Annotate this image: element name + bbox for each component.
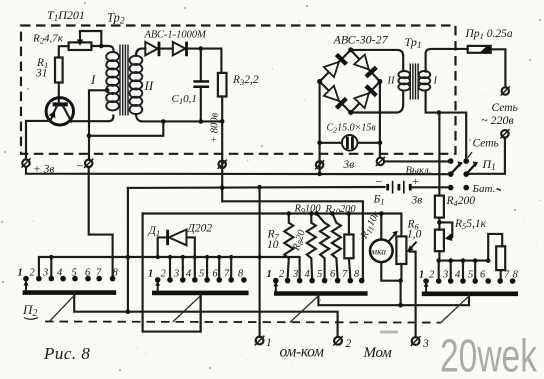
svg-text:–: – xyxy=(76,160,83,172)
svg-text:+ 3в: + 3в xyxy=(33,164,54,176)
svg-text:R4200: R4200 xyxy=(446,195,476,208)
svg-text:R9100: R9100 xyxy=(294,204,322,216)
svg-text:Т1П201: Т1П201 xyxy=(47,8,85,23)
svg-text:1: 1 xyxy=(266,337,272,349)
svg-text:3: 3 xyxy=(292,269,298,280)
svg-text:10: 10 xyxy=(267,239,279,251)
svg-text:6: 6 xyxy=(330,269,336,280)
svg-text:6: 6 xyxy=(85,268,91,279)
svg-text:7: 7 xyxy=(504,270,510,281)
svg-text:Сеть: Сеть xyxy=(473,138,499,150)
svg-text:АВС-1-1000М: АВС-1-1000М xyxy=(144,30,208,41)
svg-text:R24,7к: R24,7к xyxy=(32,33,64,46)
svg-text:5: 5 xyxy=(468,270,473,281)
svg-text:1: 1 xyxy=(267,269,272,280)
svg-text:4: 4 xyxy=(305,269,311,280)
svg-text:I: I xyxy=(433,76,438,87)
svg-text:3: 3 xyxy=(422,338,429,350)
svg-text:20wek: 20wek xyxy=(440,330,538,379)
svg-text:31: 31 xyxy=(35,68,48,80)
svg-text:1,0: 1,0 xyxy=(407,229,422,241)
svg-text:II: II xyxy=(387,76,395,87)
svg-text:Выкл.: Выкл. xyxy=(406,166,432,177)
svg-text:2: 2 xyxy=(161,269,167,280)
svg-text:3: 3 xyxy=(173,269,179,280)
svg-text:6: 6 xyxy=(480,270,486,281)
svg-text:–: – xyxy=(375,175,382,187)
svg-text:3в: 3в xyxy=(411,195,423,207)
svg-text:5: 5 xyxy=(317,269,322,280)
svg-text:3: 3 xyxy=(442,270,448,281)
svg-text:4: 4 xyxy=(455,270,461,281)
svg-text:АВС-30-27: АВС-30-27 xyxy=(333,33,389,47)
svg-text:~ 220в: ~ 220в xyxy=(481,113,514,127)
svg-text:+ 800в: + 800в xyxy=(210,113,221,143)
svg-text:8: 8 xyxy=(513,270,519,281)
svg-text:7: 7 xyxy=(342,269,348,280)
svg-text:R10200: R10200 xyxy=(325,204,357,216)
svg-text:2: 2 xyxy=(346,338,352,350)
svg-text:2: 2 xyxy=(30,268,36,279)
svg-text:R32,2: R32,2 xyxy=(232,74,259,87)
svg-text:Бат.: Бат. xyxy=(472,183,496,195)
svg-text:II: II xyxy=(144,78,154,93)
svg-text:2: 2 xyxy=(279,269,285,280)
svg-text:Рис. 8: Рис. 8 xyxy=(43,344,90,363)
svg-text:+: + xyxy=(412,176,420,188)
svg-text:7: 7 xyxy=(96,268,102,279)
svg-text:8: 8 xyxy=(113,268,119,279)
svg-text:1: 1 xyxy=(148,269,153,280)
svg-text:ом-ком: ом-ком xyxy=(280,344,325,361)
svg-text:5: 5 xyxy=(72,268,77,279)
svg-text:5: 5 xyxy=(199,269,204,280)
svg-text:6: 6 xyxy=(213,269,219,280)
svg-text:4: 4 xyxy=(57,268,63,279)
svg-text:Мом: Мом xyxy=(363,345,393,361)
svg-text:2: 2 xyxy=(429,270,435,281)
svg-text:7: 7 xyxy=(224,269,230,280)
svg-text:мка: мка xyxy=(370,248,386,258)
svg-text:Пр1 0.25а: Пр1 0.25а xyxy=(465,28,513,41)
svg-text:8: 8 xyxy=(354,269,360,280)
svg-text:С10,1: С10,1 xyxy=(172,93,197,106)
svg-text:Д202: Д202 xyxy=(187,223,213,235)
svg-text:1: 1 xyxy=(18,268,23,279)
svg-text:3в: 3в xyxy=(343,159,355,171)
svg-text:I: I xyxy=(90,72,96,87)
svg-text:R55,1к: R55,1к xyxy=(454,218,487,231)
svg-text:4: 4 xyxy=(186,269,192,280)
svg-text:8: 8 xyxy=(238,269,244,280)
svg-text:3: 3 xyxy=(42,268,48,279)
svg-text:1: 1 xyxy=(419,270,424,281)
